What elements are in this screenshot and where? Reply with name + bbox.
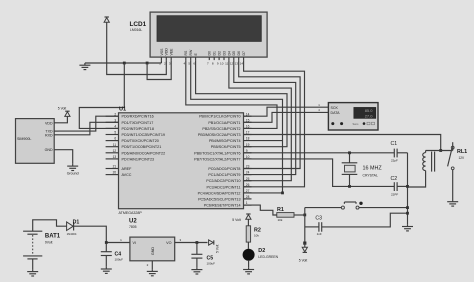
svg-text:PC5/ADC5/SCL/PCINT13: PC5/ADC5/SCL/PCINT13 bbox=[198, 197, 240, 201]
svg-text:D2: D2 bbox=[218, 51, 222, 56]
svg-text:6: 6 bbox=[114, 137, 116, 141]
svg-text:D0: D0 bbox=[208, 51, 212, 56]
svg-text:RXD: RXD bbox=[45, 133, 53, 137]
U1 pin 6 PD4/T0/XCK/PCINT20 bbox=[106, 140, 119, 142]
power +5V terminal at SIM900L bbox=[65, 110, 69, 112]
svg-text:PB2/SS/OC1B/PCINT2: PB2/SS/OC1B/PCINT2 bbox=[202, 127, 240, 131]
U1 pin 3 PD1/TXD/PCINT17 bbox=[106, 121, 119, 123]
svg-text:PB1/OC1A/PCINT1: PB1/OC1A/PCINT1 bbox=[208, 121, 240, 125]
resistor R2 10k bbox=[246, 226, 250, 242]
svg-text:D4: D4 bbox=[227, 51, 231, 56]
svg-text:PB6/TOSC1/XTAL1/PCINT6: PB6/TOSC1/XTAL1/PCINT6 bbox=[194, 151, 240, 155]
svg-text:PC6/RESET/PCINT14: PC6/RESET/PCINT14 bbox=[204, 204, 241, 208]
svg-text:D7: D7 bbox=[242, 51, 246, 56]
svg-text:PD1/TXD/PCINT17: PD1/TXD/PCINT17 bbox=[122, 121, 154, 125]
junction XTAL1 at crystal bbox=[348, 151, 351, 154]
svg-text:RL1: RL1 bbox=[457, 149, 467, 155]
svg-text:10k: 10k bbox=[278, 218, 283, 222]
U1 pin 2 PD0/RXD/PCINT16 bbox=[106, 115, 119, 117]
svg-text:11: 11 bbox=[113, 143, 117, 147]
svg-text:CRYSTAL: CRYSTAL bbox=[363, 174, 378, 178]
svg-text:D5: D5 bbox=[232, 51, 236, 56]
svg-text:9Volt: 9Volt bbox=[45, 240, 53, 244]
svg-text:PD7/AIN1/PCINT23: PD7/AIN1/PCINT23 bbox=[122, 157, 155, 161]
mcu U1 body bbox=[119, 113, 244, 209]
svg-text:12: 12 bbox=[113, 149, 117, 153]
power +5V terminal (down) at reset net bbox=[303, 251, 307, 253]
power +5V output terminal bbox=[213, 240, 215, 244]
wire LCD VDD supply bbox=[107, 22, 167, 74]
svg-text:25: 25 bbox=[246, 177, 250, 181]
U1 pin 4 PD2/INT0/PCINT18 bbox=[106, 127, 119, 129]
svg-text:PD2/INT0/PCINT18: PD2/INT0/PCINT18 bbox=[122, 127, 154, 131]
U1 pin 20 AVCC bbox=[106, 174, 119, 176]
svg-text:PD6/AIN0/OC0A/PCINT22: PD6/AIN0/OC0A/PCINT22 bbox=[122, 151, 166, 155]
svg-text:Ground: Ground bbox=[67, 172, 79, 176]
capacitor C3 bbox=[305, 226, 319, 228]
svg-text:PC0/ADC0/PCINT8: PC0/ADC0/PCINT8 bbox=[208, 167, 240, 171]
wire BAT1 to ground bbox=[32, 259, 34, 270]
power +5V terminal at R2 bbox=[246, 213, 250, 215]
svg-text:23: 23 bbox=[246, 165, 250, 169]
svg-text:C1: C1 bbox=[391, 141, 398, 147]
sensor button 1 bbox=[331, 122, 334, 125]
wire sensor DATA to U1 PB1 bbox=[244, 112, 329, 122]
U1 pin 11 PD5/T1/OC0B/PCINT21 bbox=[106, 146, 119, 148]
svg-text:D6: D6 bbox=[237, 51, 241, 56]
wire crystal ground leg bbox=[407, 153, 409, 225]
junction +5V node bottom bbox=[303, 242, 306, 245]
svg-text:85.0: 85.0 bbox=[365, 108, 374, 113]
svg-text:D3: D3 bbox=[222, 51, 226, 56]
wire LCD RS to U1 PB2 bbox=[186, 60, 277, 128]
svg-text:5 Volt: 5 Volt bbox=[58, 106, 67, 110]
wire LCD E to U1 PB5 bbox=[196, 60, 287, 147]
svg-text:PB7/TOSC2/XTAL2/PCINT7: PB7/TOSC2/XTAL2/PCINT7 bbox=[194, 157, 240, 161]
sensor button 2 bbox=[340, 122, 343, 125]
ground (LCD VSS net) bbox=[84, 63, 86, 65]
wire U1 PB7 to XTAL2 net bbox=[244, 159, 395, 187]
junction C3/ground leg bbox=[406, 212, 409, 215]
wire D2 to ground bbox=[248, 261, 250, 268]
wire U2 VO to +5V out bbox=[175, 242, 208, 244]
wire LCD D4 to U1 PC2 bbox=[229, 60, 291, 181]
svg-text:100uF: 100uF bbox=[115, 257, 124, 261]
U1 pin 1 PC6/RESET/PCINT14 bbox=[244, 204, 252, 206]
capacitor C2 bbox=[393, 182, 395, 191]
svg-text:U2: U2 bbox=[129, 218, 137, 224]
svg-text:20: 20 bbox=[113, 171, 117, 175]
svg-text:5 Volt: 5 Volt bbox=[232, 218, 241, 222]
svg-text:22pF: 22pF bbox=[391, 159, 398, 163]
wire BAT1 to D1 bbox=[33, 220, 67, 231]
U1 pin 15 PB1/OC1A/PCINT1 bbox=[244, 121, 252, 123]
U1 pin 28 PC5/ADC5/SCL/PCINT13 bbox=[244, 198, 252, 200]
svg-text:1N4004: 1N4004 bbox=[67, 232, 77, 236]
wire SIM900L GND bbox=[59, 150, 73, 164]
U1 pin 18 PB4/MISO/PCINT4 bbox=[244, 140, 283, 142]
svg-text:R2: R2 bbox=[254, 227, 261, 233]
svg-text:VI: VI bbox=[133, 241, 136, 245]
U1 pin 9 PB6/TOSC1/XTAL1/PCINT6 bbox=[244, 152, 252, 154]
wire LCD D6 to U1 PC0 bbox=[239, 60, 300, 168]
junction on ground rail (Z-wire) bbox=[123, 62, 126, 65]
resistor R1 10k bbox=[277, 213, 294, 218]
svg-text:19: 19 bbox=[246, 143, 250, 147]
svg-text:PB0/ICP1/CLKO/PCINT0: PB0/ICP1/CLKO/PCINT0 bbox=[199, 115, 240, 119]
module SIM900L body bbox=[16, 119, 55, 164]
svg-text:GND: GND bbox=[45, 148, 53, 152]
U1 pin 24 PC1/ADC1/PCINT9 bbox=[244, 174, 252, 176]
crystal X1 16MHZ bbox=[349, 153, 351, 163]
svg-text:4: 4 bbox=[114, 125, 116, 129]
svg-text:SCK: SCK bbox=[331, 106, 339, 110]
svg-text:R1: R1 bbox=[277, 207, 284, 213]
svg-text:RW: RW bbox=[189, 49, 193, 55]
junction crystal-ground-leg / XTAL2 bbox=[406, 185, 409, 188]
sensor module body bbox=[328, 103, 378, 130]
svg-text:10: 10 bbox=[220, 61, 224, 65]
svg-text:PC1/ADC1/PCINT9: PC1/ADC1/PCINT9 bbox=[208, 173, 240, 177]
U1 pin 13 PD7/AIN1/PCINT23 bbox=[106, 158, 119, 160]
wire U1 RESET to R1 bbox=[244, 205, 277, 215]
ground at U2 bbox=[151, 269, 153, 271]
svg-text:26: 26 bbox=[246, 183, 250, 187]
svg-text:D1: D1 bbox=[73, 220, 80, 226]
push button (reset) bbox=[341, 206, 344, 209]
wire relay switch to ground bbox=[452, 170, 454, 200]
U1 pin 25 PC2/ADC2/PCINT10 bbox=[244, 180, 252, 182]
junction on ground rail (VEE) bbox=[146, 62, 149, 65]
wire U1 PB6 to XTAL1 net bbox=[244, 152, 395, 154]
svg-text:PB3/MOSI/OC2A/PCINT3: PB3/MOSI/OC2A/PCINT3 bbox=[198, 133, 241, 137]
junction relay coil top bbox=[439, 149, 442, 152]
svg-text:LM016L: LM016L bbox=[130, 28, 142, 32]
wire sensor SCK to U1 PB0 bbox=[244, 107, 329, 116]
svg-text:24: 24 bbox=[246, 171, 250, 175]
U1 pin 26 PC3/ADC3/PCINT11 bbox=[244, 186, 252, 188]
svg-text:16: 16 bbox=[246, 125, 250, 129]
wire LCD ground rail bbox=[85, 62, 161, 64]
svg-text:LCD1: LCD1 bbox=[130, 21, 147, 28]
svg-text:21: 21 bbox=[113, 165, 117, 169]
wire LCD D5 to U1 PC1 bbox=[234, 60, 296, 175]
wire node Z to U1 PD2 bbox=[79, 63, 124, 128]
wire SIM900L TXD to U1 PD0 bbox=[59, 116, 119, 131]
LCD LCD1 screen bbox=[157, 16, 261, 42]
battery BAT1 9V bbox=[23, 230, 42, 232]
U1 pin 16 PB2/SS/OC1B/PCINT2 bbox=[244, 127, 252, 129]
U1 pin 27 PC4/ADC4/SDA/PCINT12 bbox=[244, 192, 252, 194]
sensor display bbox=[354, 107, 376, 118]
svg-text:U1: U1 bbox=[119, 106, 126, 112]
relay RL1 coil bbox=[425, 151, 427, 153]
svg-text:VEE: VEE bbox=[170, 48, 174, 56]
wire button to ground leg bbox=[359, 207, 408, 209]
wire +5V node to button bbox=[305, 207, 342, 209]
svg-text:13: 13 bbox=[113, 155, 117, 159]
svg-text:AREF: AREF bbox=[122, 167, 133, 171]
wire LCD VEE to ground bbox=[147, 60, 171, 79]
svg-text:PB4/MISO/PCINT4: PB4/MISO/PCINT4 bbox=[209, 139, 241, 143]
ground at relay bbox=[452, 200, 454, 202]
ground of crystal net bbox=[407, 224, 409, 226]
svg-text:12: 12 bbox=[230, 61, 234, 65]
svg-text:SIM900L: SIM900L bbox=[17, 137, 31, 141]
svg-text:PD3/INT1/OC2B/PCINT19: PD3/INT1/OC2B/PCINT19 bbox=[122, 133, 165, 137]
junction D1/C4 node bbox=[105, 241, 108, 244]
wire SIM900L VDD to +5V bbox=[59, 116, 68, 122]
wire XTAL1 net right of C1 bbox=[397, 152, 407, 154]
wire relay coil top bar bbox=[426, 150, 453, 152]
svg-text:13: 13 bbox=[235, 61, 239, 65]
svg-text:11: 11 bbox=[225, 61, 228, 65]
svg-text:27.0: 27.0 bbox=[365, 113, 374, 118]
svg-text:D2: D2 bbox=[258, 248, 265, 254]
svg-text:C5: C5 bbox=[207, 255, 214, 261]
svg-text:5: 5 bbox=[114, 131, 116, 135]
svg-text:PC4/ADC4/SDA/PCINT12: PC4/ADC4/SDA/PCINT12 bbox=[198, 191, 241, 195]
svg-text:VDD: VDD bbox=[45, 121, 53, 125]
svg-text:100uF: 100uF bbox=[207, 262, 216, 266]
capacitor C5 100uF bbox=[196, 243, 198, 255]
U1 pin 19 PB5/SCK/PCINT5 bbox=[244, 146, 252, 148]
U1 pin 14 PB0/ICP1/CLKO/PCINT0 bbox=[244, 115, 252, 117]
U1 pin 21 AREF bbox=[106, 168, 119, 170]
wire relay coil bottom to ground leg bbox=[408, 171, 426, 187]
svg-text:18: 18 bbox=[246, 137, 250, 141]
relay RL1 switch bbox=[452, 142, 454, 146]
svg-text:D1: D1 bbox=[213, 51, 217, 56]
svg-text:C3: C3 bbox=[315, 215, 322, 221]
U1 pin 17 PB3/MOSI/OC2A/PCINT3 bbox=[244, 134, 252, 136]
svg-text:28: 28 bbox=[246, 195, 250, 199]
svg-text:BAT1: BAT1 bbox=[45, 233, 61, 239]
wire R2 to D2 bbox=[247, 242, 249, 249]
svg-text:22PF: 22PF bbox=[391, 192, 398, 196]
U1 pin 10 PB7/TOSC2/XTAL2/PCINT7 bbox=[244, 158, 252, 160]
wire LCD RW to U1 PC4 bbox=[191, 60, 283, 193]
wire LCD D7 to U1 PC3 bbox=[244, 60, 305, 187]
wire SIM900L RXD to U1 PD1 bbox=[59, 122, 119, 135]
capacitor C1 bbox=[393, 149, 395, 158]
ground at C5 bbox=[196, 267, 198, 269]
diode D1 1N4004 bbox=[67, 222, 74, 231]
ground at SIM900L bbox=[72, 164, 74, 166]
junction XTAL2 at crystal bbox=[348, 185, 351, 188]
U1 pin 23 PC0/ADC0/PCINT8 bbox=[244, 168, 252, 170]
svg-text:PD5/T1/OC0B/PCINT21: PD5/T1/OC0B/PCINT21 bbox=[122, 145, 162, 149]
wire XTAL2 net right of C2 bbox=[397, 185, 407, 187]
svg-text:AVCC: AVCC bbox=[122, 173, 132, 177]
svg-text:DATA: DATA bbox=[331, 111, 341, 115]
wire R1 to +5V node bbox=[294, 214, 305, 216]
power +5V terminal above LCD bbox=[105, 16, 109, 18]
wire U1 PB3 to relay coil bbox=[244, 135, 441, 151]
svg-text:1nF: 1nF bbox=[317, 232, 322, 236]
ground at BAT1 bbox=[32, 269, 34, 271]
svg-text:5 Volt: 5 Volt bbox=[216, 245, 220, 254]
capacitor C4 100uF bbox=[105, 243, 107, 252]
junction button/ground leg bbox=[406, 206, 409, 209]
wire +5V vertical node bbox=[304, 208, 306, 244]
svg-text:VSS: VSS bbox=[160, 48, 164, 56]
U1 pin 5 PD3/INT1/OC2B/PCINT19 bbox=[106, 134, 119, 136]
led D2 LED-GREEN bbox=[243, 249, 255, 261]
svg-text:10k: 10k bbox=[254, 234, 259, 238]
svg-text:PB5/SCK/PCINT5: PB5/SCK/PCINT5 bbox=[211, 145, 241, 149]
LCD LCD1 body bbox=[150, 12, 267, 57]
wire D1 to U2 VI bbox=[74, 226, 130, 242]
svg-text:PC3/ADC3/PCINT11: PC3/ADC3/PCINT11 bbox=[207, 185, 241, 189]
wire U2 GND to ground bbox=[151, 261, 153, 269]
svg-text:16 MHZ: 16 MHZ bbox=[363, 166, 383, 172]
svg-text:27: 27 bbox=[246, 189, 250, 193]
junction VO/C5 node bbox=[196, 241, 199, 244]
svg-text:PD0/RXD/PCINT16: PD0/RXD/PCINT16 bbox=[122, 115, 154, 119]
svg-text:PD4/T0/XCK/PCINT20: PD4/T0/XCK/PCINT20 bbox=[122, 139, 159, 143]
svg-text:ATMEGA328P: ATMEGA328P bbox=[119, 211, 143, 215]
junction R1/+5V node bbox=[303, 214, 306, 217]
wire +5V to R2 bbox=[247, 219, 249, 226]
junction at button actuator bbox=[359, 202, 362, 205]
svg-text:12V: 12V bbox=[459, 156, 466, 160]
svg-text:VDD: VDD bbox=[165, 48, 169, 56]
svg-text:Sens: Sens bbox=[353, 122, 360, 126]
svg-text:C2: C2 bbox=[391, 176, 398, 182]
svg-text:7805: 7805 bbox=[129, 225, 137, 229]
wire C3 to ground leg bbox=[322, 213, 408, 227]
svg-text:VO: VO bbox=[166, 241, 171, 245]
svg-text:RS: RS bbox=[184, 50, 188, 56]
svg-text:5 Volt: 5 Volt bbox=[299, 258, 308, 262]
ground at C4 bbox=[105, 267, 107, 269]
svg-text:LED-GREEN: LED-GREEN bbox=[258, 255, 278, 259]
ground at D2 bbox=[248, 267, 250, 269]
svg-text:14: 14 bbox=[240, 61, 244, 65]
junction at U1 PC4 bbox=[281, 192, 284, 195]
regulator U2 7805 body bbox=[130, 237, 175, 261]
svg-text:GND: GND bbox=[151, 247, 155, 256]
U1 pin 12 PD6/AIN0/OC0A/PCINT22 bbox=[106, 152, 119, 154]
svg-text:PC2/ADC2/PCINT10: PC2/ADC2/PCINT10 bbox=[206, 179, 240, 183]
